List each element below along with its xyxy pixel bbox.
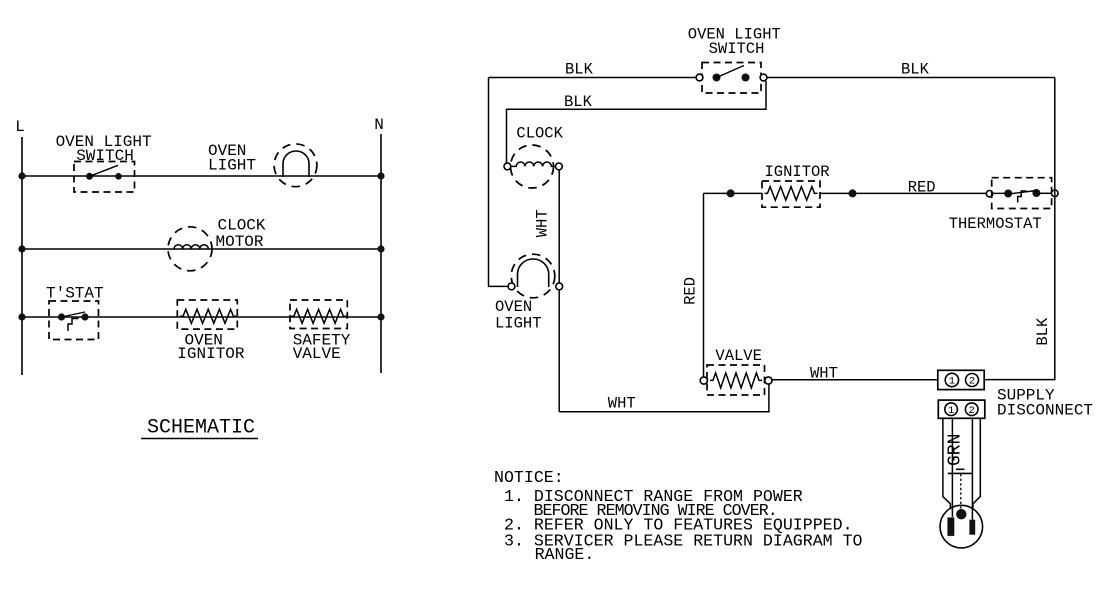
- svg-text:RED: RED: [682, 277, 700, 305]
- wire: valve right drop: [768, 384, 770, 412]
- svg-text:T'STAT: T'STAT: [46, 285, 104, 303]
- svg-text:RED: RED: [908, 179, 936, 197]
- svg-text:SWITCH: SWITCH: [709, 40, 765, 58]
- motor M1 clock motor: dashed circle: [168, 227, 212, 271]
- plug P1: body circle: [940, 505, 983, 548]
- svg-text:CLOCK: CLOCK: [218, 217, 266, 235]
- thermostat S4 contact left: [1004, 190, 1012, 198]
- switch S1 blade: [90, 165, 119, 176]
- valve R4 zigzag: [710, 373, 762, 388]
- svg-text:THERMOSTAT: THERMOSTAT: [949, 215, 1042, 233]
- valve R4 terminal left (open): [700, 377, 707, 384]
- switch S3 terminal left (open): [696, 74, 703, 81]
- svg-text:MOTOR: MOTOR: [216, 233, 264, 251]
- cord conductor left (to prong 1): [951, 418, 953, 517]
- resistor R3 ignitor: dashed box: [762, 181, 820, 207]
- switch S3 terminal right (open): [760, 74, 767, 81]
- wire: bottom WHT run: [559, 411, 769, 413]
- resistor R1 oven ignitor: dashed box: [177, 300, 237, 329]
- svg-text:BLK: BLK: [565, 61, 594, 79]
- svg-text:GRN: GRN: [945, 434, 965, 466]
- resistor R1 zigzag: [180, 309, 236, 323]
- svg-text:DISCONNECT: DISCONNECT: [997, 402, 1093, 420]
- TB1 terminal 2 circle: [966, 374, 979, 387]
- terminal block TB2 (lower): body: [938, 400, 985, 418]
- thermostat S4: dashed box: [992, 178, 1052, 209]
- valve coil R4: dashed box: [707, 365, 765, 395]
- switch S1 contact right: [115, 173, 122, 180]
- junction: rung3-L: [18, 313, 25, 320]
- wire: WHT run valve to disconnect: [772, 379, 938, 381]
- svg-text:NOTICE:: NOTICE:: [494, 468, 564, 487]
- switch S3 oven light switch: dashed box: [702, 63, 761, 94]
- svg-text:RANGE.: RANGE.: [535, 545, 595, 564]
- wire: left vertical from BLK top to oven light: [489, 78, 509, 287]
- svg-text:2: 2: [969, 376, 975, 388]
- wire: drop from switch right to BLK run 2: [507, 81, 767, 163]
- lamp DS2 filament arch: [518, 259, 549, 287]
- svg-text:WHT: WHT: [534, 209, 552, 237]
- lamp DS2 terminal left (open): [508, 283, 515, 290]
- wire: main vertical (clock to bottom WHT run): [558, 170, 560, 412]
- wire: rung 2 (clock circuit): [22, 248, 381, 250]
- thermostat S4 bimetal hook: [1018, 191, 1027, 203]
- junction: rung2-L: [18, 245, 25, 252]
- svg-text:WHT: WHT: [608, 395, 636, 413]
- svg-text:1: 1: [949, 376, 955, 388]
- svg-text:VALVE: VALVE: [715, 347, 762, 365]
- wire: BLK top run right segment: [767, 77, 1055, 79]
- title underline: [141, 438, 258, 440]
- power cord outline left: [943, 418, 951, 508]
- ground conductor (dotted): [960, 474, 962, 510]
- svg-text:BLK: BLK: [901, 61, 930, 79]
- svg-text:LIGHT: LIGHT: [208, 157, 256, 175]
- svg-text:CLOCK: CLOCK: [516, 125, 563, 143]
- wire: BLK top run: [489, 77, 697, 79]
- thermostat S2 contact left: [58, 313, 65, 320]
- clock motor M2: dashed circle: [511, 145, 554, 188]
- wire: BLK right bus vertical: [984, 78, 1055, 380]
- lamp DS1 filament arch: [283, 151, 309, 177]
- svg-text:IGNITOR: IGNITOR: [765, 163, 830, 181]
- svg-text:2: 2: [969, 405, 975, 417]
- switch S3 blade: [717, 66, 745, 78]
- wire: N bus vertical: [380, 134, 382, 373]
- TB2 terminal 2 circle: [965, 403, 978, 416]
- TB2 terminal 1 circle: [945, 403, 958, 416]
- switch S3 contact right: [742, 74, 750, 82]
- plug P1 prong 2 (right): [969, 520, 975, 535]
- plug P1 prong 1 (left): [947, 517, 954, 536]
- junction: ignitor right: [849, 189, 857, 197]
- lamp DS1 oven light: dashed circle: [274, 144, 317, 187]
- wire: thermostat to BLK bus stub: [1040, 192, 1052, 194]
- svg-text:1: 1: [948, 405, 954, 417]
- junction: rung1-N: [377, 172, 384, 179]
- wire: L bus vertical: [21, 137, 23, 375]
- thermostat S4 terminal right (open): [1052, 190, 1059, 197]
- motor M1 winding coil: [174, 245, 209, 249]
- terminal block TB1 (upper): body: [938, 370, 984, 389]
- wire: rung 3 (ignitor circuit): [22, 316, 381, 318]
- thermostat S2 blade: [62, 312, 86, 317]
- svg-text:N: N: [374, 116, 384, 134]
- valve R4 terminal right (open): [765, 377, 772, 384]
- cord conductor right (to prong 2): [971, 418, 973, 519]
- thermostat S4: terminal left (open): [986, 191, 992, 197]
- junction: rung3-N: [377, 313, 384, 320]
- thermostat S2 bimetal hook: [68, 319, 79, 332]
- svg-text:BLK: BLK: [564, 93, 593, 111]
- thermostat S4 contact right: [1032, 189, 1040, 197]
- clock M2 winding coil: [511, 162, 556, 166]
- svg-text:OVEN: OVEN: [495, 298, 532, 316]
- switch S1 contact left: [86, 173, 93, 180]
- resistor R3 zigzag: [765, 187, 818, 201]
- ground symbol bar small: [956, 468, 965, 470]
- junction: ignitor left: [727, 189, 735, 197]
- svg-text:VALVE: VALVE: [293, 345, 341, 363]
- svg-text:LIGHT: LIGHT: [495, 314, 542, 332]
- switch S1 oven light switch: dashed box: [74, 162, 135, 193]
- resistor R2 safety valve: dashed box: [290, 300, 347, 329]
- svg-text:SCHEMATIC: SCHEMATIC: [147, 417, 255, 440]
- wire: ignitor to thermostat: [820, 192, 1008, 194]
- wire: ignitor feed (RED circuit top): [704, 192, 763, 194]
- thermostat S2 t-stat: dashed box: [49, 301, 99, 340]
- thermostat S4 blade: [1008, 191, 1036, 195]
- resistor R2 zigzag: [291, 309, 347, 323]
- TB1 terminal 1 circle: [945, 373, 958, 386]
- wire: RED vertical (ignitor to valve): [703, 193, 705, 377]
- clock M2 terminal left (open): [504, 163, 511, 170]
- lamp DS2 oven light: dashed circle: [511, 254, 555, 298]
- wire: rung 1 (oven light circuit): [22, 175, 381, 177]
- svg-text:IGNITOR: IGNITOR: [177, 345, 245, 363]
- thermostat S2 contact right: [81, 313, 88, 320]
- power cord outline right: [973, 418, 980, 508]
- plug P1 ground pin: [956, 509, 966, 519]
- junction: rung2-N: [377, 245, 384, 252]
- junction: rung1-L: [18, 172, 25, 179]
- switch S3 contact left: [713, 74, 721, 82]
- svg-text:L: L: [15, 118, 25, 136]
- clock M2 terminal right (open): [556, 163, 563, 170]
- lamp DS2 terminal right (open): [556, 283, 563, 290]
- ground symbol bar wide: [948, 472, 973, 474]
- svg-text:BLK: BLK: [1034, 317, 1052, 346]
- svg-text:WHT: WHT: [810, 365, 838, 383]
